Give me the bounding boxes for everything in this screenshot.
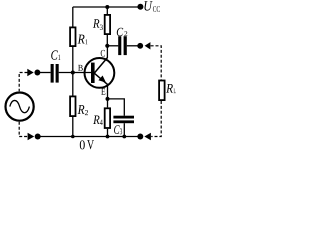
wire: dashed source bottom to ground terminal: [19, 122, 27, 137]
wire: C2 to output terminal: [127, 45, 138, 47]
label 0 V: [80, 140, 94, 149]
label RL: [166, 84, 176, 93]
node: R3 top junction dot: [105, 5, 109, 9]
capacitor C3: [113, 116, 134, 119]
wire: dashed RL bottom to ground terminal: [151, 101, 161, 137]
wire: emitter node to C3 top: [108, 99, 125, 116]
label E: [101, 88, 105, 94]
wire: Ucc top supply rail: [73, 6, 141, 8]
label R4: [93, 116, 103, 126]
terminal: input dot: [34, 70, 40, 76]
label C3: [114, 125, 122, 134]
terminal: bottom-left arrow: [28, 133, 35, 140]
wire: ground rail: [38, 136, 141, 138]
label C (collector): [101, 50, 105, 57]
terminal: output dot: [137, 43, 143, 49]
wire: C3 bottom to ground rail: [123, 123, 125, 136]
wire: dashed source top to input terminal: [19, 73, 27, 92]
wire: R4 bottom to ground rail: [107, 129, 109, 137]
transistor emitter lead (diagonal): [94, 73, 108, 85]
wire: emitter vertical lead: [107, 84, 109, 99]
terminal: bottom-left dot: [35, 134, 41, 140]
resistor R1: [70, 27, 75, 46]
transistor collector lead (diagonal): [94, 58, 107, 73]
wire: R3 top lead: [106, 7, 108, 14]
wire: R1 top lead: [72, 7, 74, 27]
transistor Q1 body circle: [85, 58, 115, 88]
node: C3 ground junction dot: [122, 135, 126, 139]
wire: R3 bottom to collector node: [106, 35, 108, 46]
wire: emitter node to R4: [107, 99, 109, 108]
source: signal generator circle: [6, 93, 34, 121]
wire: collector node to C2: [107, 45, 118, 47]
terminal: output arrow: [145, 42, 151, 49]
terminal: bottom-right arrow: [144, 133, 151, 140]
wire: base node to R2: [72, 73, 74, 96]
resistor R2: [70, 96, 75, 116]
label B: [78, 65, 83, 71]
wire: dashed output to RL top: [151, 46, 162, 80]
label C1: [51, 50, 60, 60]
transistor emitter arrow: [98, 76, 106, 83]
wire: input dot to C1: [37, 72, 50, 74]
resistor R4: [105, 108, 110, 128]
wire: R1 bottom to base node: [72, 47, 74, 73]
wire: R2 bottom to ground rail: [72, 117, 74, 137]
label Ucc: [144, 1, 160, 12]
terminal Ucc dot: [137, 4, 143, 10]
label R3: [93, 19, 103, 30]
node: R4 ground junction dot: [106, 135, 110, 139]
terminal: bottom-right dot: [137, 134, 143, 140]
wire: collector node down to transistor: [106, 46, 108, 58]
resistor R3: [105, 15, 110, 34]
label R2: [78, 105, 88, 115]
transistor base bar: [91, 63, 95, 83]
wire: base lead from C1 to base bar: [59, 72, 91, 74]
capacitor C2: [118, 36, 121, 55]
node: collector junction dot: [105, 44, 109, 48]
terminal: input arrow: [27, 69, 33, 76]
source: sine wave symbol: [10, 100, 30, 112]
label C2: [117, 28, 128, 36]
node: R2 ground junction dot: [71, 135, 75, 139]
label R1: [78, 35, 88, 45]
node: base junction dot: [71, 71, 75, 75]
capacitor C1: [51, 64, 54, 83]
node: emitter junction dot: [106, 97, 110, 101]
resistor RL: [159, 81, 165, 101]
